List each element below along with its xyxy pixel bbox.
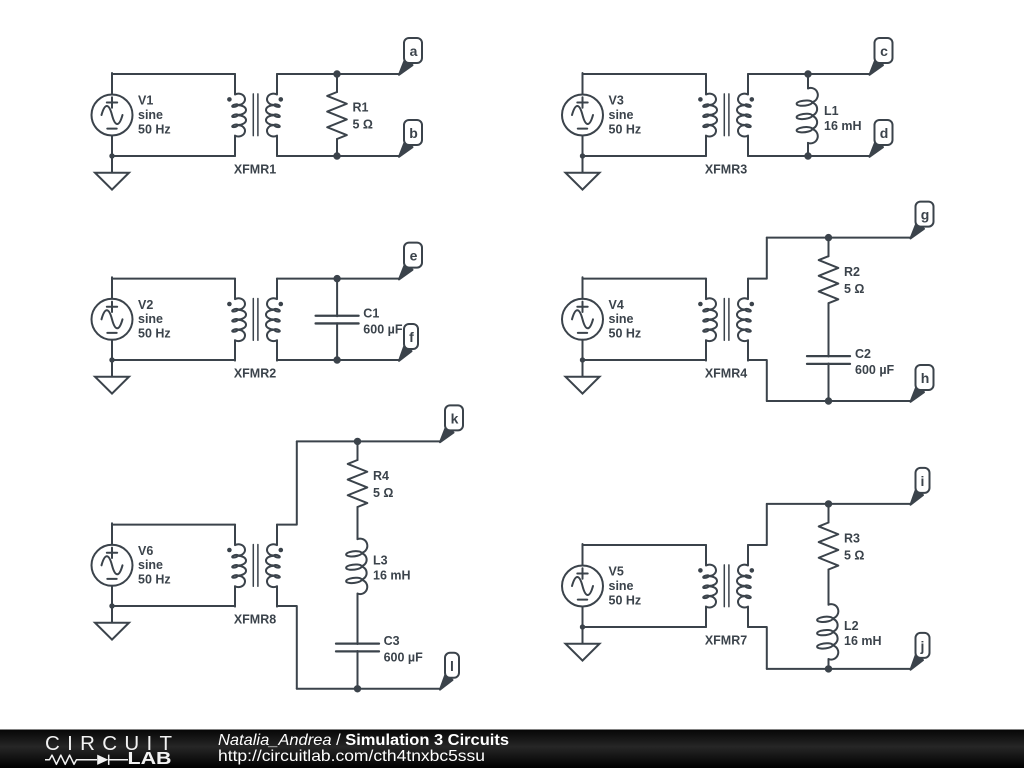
svg-text:600 µF: 600 µF bbox=[855, 363, 895, 377]
svg-text:V6: V6 bbox=[138, 544, 153, 558]
svg-text:i: i bbox=[921, 473, 925, 489]
node dot chain bottom bbox=[826, 398, 831, 403]
wire: primary loop bottom rail bbox=[583, 155, 707, 157]
svg-text:L3: L3 bbox=[373, 554, 388, 568]
wire: loop top rail to terminal i bbox=[767, 503, 911, 505]
terminal l bbox=[440, 653, 459, 690]
wire: secondary bottom rail to terminal f bbox=[277, 359, 399, 361]
svg-text:XFMR1: XFMR1 bbox=[234, 163, 276, 177]
svg-text:XFMR3: XFMR3 bbox=[705, 163, 747, 177]
wire: primary loop bottom rail bbox=[583, 359, 707, 361]
svg-text:c: c bbox=[880, 43, 888, 59]
resistor R4 bbox=[357, 441, 359, 460]
svg-text:V3: V3 bbox=[609, 94, 624, 108]
wire: secondary top jog up to loop top rail bbox=[748, 238, 767, 279]
svg-text:j: j bbox=[920, 638, 925, 654]
terminal g bbox=[911, 202, 934, 239]
terminal f bbox=[399, 324, 418, 361]
voltage source V4 bbox=[562, 277, 603, 361]
svg-text:C3: C3 bbox=[384, 634, 400, 648]
node dot chain top bbox=[355, 439, 360, 444]
svg-text:sine: sine bbox=[138, 558, 163, 572]
svg-text:16 mH: 16 mH bbox=[373, 568, 411, 582]
wire: primary loop bottom rail bbox=[112, 359, 235, 361]
wire: secondary top rail to terminal e bbox=[277, 278, 399, 280]
svg-text:a: a bbox=[410, 43, 418, 59]
resistor R1 bbox=[336, 74, 338, 92]
wire: primary loop top rail bbox=[112, 73, 235, 75]
transformer XFMR1 bbox=[227, 74, 283, 156]
wire R2 to C2 bbox=[828, 303, 830, 356]
svg-text:V5: V5 bbox=[609, 565, 624, 579]
svg-text:Natalia_Andrea / Simulation 3: Natalia_Andrea / Simulation 3 Circuits bbox=[218, 732, 509, 749]
wire: primary loop bottom rail bbox=[583, 626, 707, 628]
wire L2 to bottom rail bbox=[828, 659, 830, 669]
svg-text:R4: R4 bbox=[373, 469, 389, 483]
ground at V5 bbox=[566, 624, 600, 660]
svg-text:50 Hz: 50 Hz bbox=[138, 122, 171, 136]
wire: secondary bottom rail to terminal d bbox=[748, 155, 870, 157]
voltage source V5 bbox=[562, 544, 603, 628]
svg-text:50 Hz: 50 Hz bbox=[609, 593, 642, 607]
ground at V3 bbox=[566, 153, 600, 189]
svg-text:50 Hz: 50 Hz bbox=[138, 573, 171, 587]
terminal j bbox=[911, 633, 930, 670]
svg-text:http://circuitlab.com/cth4tnxb: http://circuitlab.com/cth4tnxbc5ssu bbox=[218, 748, 485, 765]
terminal e bbox=[399, 243, 422, 280]
svg-text:LAB: LAB bbox=[128, 748, 172, 768]
voltage source V6 bbox=[92, 523, 133, 607]
svg-text:600 µF: 600 µF bbox=[363, 323, 403, 337]
node dot chain top bbox=[826, 501, 831, 506]
svg-text:h: h bbox=[921, 370, 930, 386]
inductor L2 bbox=[817, 604, 838, 659]
wire: primary loop top rail bbox=[112, 524, 235, 526]
wire: secondary bottom jog down to loop bottom rail bbox=[277, 606, 297, 689]
wire: primary loop bottom rail bbox=[112, 605, 235, 607]
ground at V4 bbox=[566, 357, 600, 393]
svg-text:50 Hz: 50 Hz bbox=[138, 327, 171, 341]
inductor L1 bbox=[807, 74, 809, 88]
svg-text:V4: V4 bbox=[609, 298, 624, 312]
capacitor C3 bbox=[336, 644, 379, 652]
wire: primary loop top rail bbox=[583, 544, 707, 546]
node dot R1 top bbox=[334, 71, 339, 76]
inductor L3 bbox=[346, 539, 367, 594]
terminal a bbox=[399, 38, 422, 75]
svg-text:sine: sine bbox=[138, 108, 163, 122]
svg-text:R1: R1 bbox=[353, 101, 369, 115]
wire: loop top rail to terminal k bbox=[297, 440, 440, 442]
svg-text:l: l bbox=[450, 658, 454, 674]
wire R3 to L2 bbox=[828, 570, 830, 605]
svg-text:50 Hz: 50 Hz bbox=[609, 122, 642, 136]
svg-text:g: g bbox=[921, 207, 930, 223]
wire: primary loop bottom rail bbox=[112, 155, 235, 157]
svg-text:XFMR7: XFMR7 bbox=[705, 634, 747, 648]
wire: secondary bottom rail to terminal b bbox=[277, 155, 399, 157]
terminal h bbox=[911, 365, 934, 402]
capacitor C1 bbox=[336, 279, 338, 317]
svg-text:f: f bbox=[409, 329, 414, 345]
node dot C1 top bbox=[334, 276, 339, 281]
svg-text:16 mH: 16 mH bbox=[844, 634, 882, 648]
wire L3 to C3 bbox=[357, 594, 359, 644]
svg-text:L2: L2 bbox=[844, 619, 859, 633]
svg-text:sine: sine bbox=[609, 579, 634, 593]
terminal i bbox=[911, 468, 930, 505]
wire: loop bottom rail to terminal h bbox=[767, 400, 911, 402]
svg-text:5 Ω: 5 Ω bbox=[373, 486, 393, 500]
wire R4 to L3 bbox=[357, 507, 359, 539]
ground at V6 bbox=[95, 603, 129, 639]
transformer XFMR3 bbox=[698, 74, 754, 156]
transformer XFMR2 bbox=[227, 279, 283, 361]
transformer XFMR7 bbox=[698, 545, 754, 627]
node dot chain bottom bbox=[826, 666, 831, 671]
svg-text:sine: sine bbox=[609, 108, 634, 122]
wire: secondary top rail to terminal a bbox=[277, 73, 399, 75]
svg-text:sine: sine bbox=[138, 312, 163, 326]
svg-text:L1: L1 bbox=[824, 104, 839, 118]
svg-text:d: d bbox=[880, 125, 889, 141]
svg-text:k: k bbox=[451, 410, 459, 426]
node dot chain bottom bbox=[355, 686, 360, 691]
wire: loop bottom rail to terminal l bbox=[297, 688, 440, 690]
svg-text:e: e bbox=[410, 248, 418, 264]
capacitor C2 bbox=[807, 356, 850, 364]
node dot C1 bottom bbox=[334, 357, 339, 362]
svg-text:C1: C1 bbox=[363, 307, 379, 321]
svg-text:XFMR4: XFMR4 bbox=[705, 367, 747, 381]
svg-text:V1: V1 bbox=[138, 94, 153, 108]
resistor R2 bbox=[828, 238, 830, 257]
voltage source V2 bbox=[92, 277, 133, 361]
terminal b bbox=[399, 120, 422, 157]
wire: secondary top jog up to loop top rail bbox=[748, 504, 767, 545]
wire: secondary bottom jog down to loop bottom rail bbox=[748, 360, 767, 401]
wire: primary loop top rail bbox=[583, 73, 707, 75]
svg-text:5 Ω: 5 Ω bbox=[844, 548, 864, 562]
voltage source V3 bbox=[562, 73, 603, 157]
wire: loop top rail to terminal g bbox=[767, 237, 911, 239]
svg-text:R2: R2 bbox=[844, 265, 860, 279]
node dot R1 bottom bbox=[334, 153, 339, 158]
svg-text:b: b bbox=[409, 125, 418, 141]
transformer XFMR4 bbox=[698, 279, 754, 361]
wire: primary loop top rail bbox=[583, 278, 707, 280]
terminal c bbox=[870, 38, 893, 75]
svg-text:600 µF: 600 µF bbox=[384, 651, 424, 665]
node dot L1 bottom bbox=[805, 153, 810, 158]
svg-text:sine: sine bbox=[609, 312, 634, 326]
svg-text:50 Hz: 50 Hz bbox=[609, 327, 642, 341]
wire: secondary top jog up to loop top rail bbox=[277, 441, 297, 524]
wire: loop bottom rail to terminal j bbox=[767, 668, 911, 670]
node dot chain top bbox=[826, 235, 831, 240]
svg-text:C2: C2 bbox=[855, 347, 871, 361]
wire: secondary bottom jog down to loop bottom rail bbox=[748, 627, 767, 669]
CircuitLab logo resistor-diode glyph bbox=[45, 755, 97, 764]
voltage source V1 bbox=[92, 73, 133, 157]
footer background bbox=[0, 730, 1024, 768]
transformer XFMR8 bbox=[227, 525, 283, 607]
svg-text:16 mH: 16 mH bbox=[824, 119, 862, 133]
wire: primary loop top rail bbox=[112, 278, 235, 280]
svg-text:V2: V2 bbox=[138, 298, 153, 312]
svg-text:R3: R3 bbox=[844, 532, 860, 546]
terminal d bbox=[870, 120, 893, 157]
svg-text:5 Ω: 5 Ω bbox=[353, 117, 373, 131]
terminal k bbox=[440, 405, 463, 442]
svg-text:5 Ω: 5 Ω bbox=[844, 282, 864, 296]
ground at V1 bbox=[95, 153, 129, 189]
node dot L1 top bbox=[805, 71, 810, 76]
svg-text:XFMR2: XFMR2 bbox=[234, 367, 276, 381]
svg-text:XFMR8: XFMR8 bbox=[234, 613, 276, 627]
wire: secondary top rail to terminal c bbox=[748, 73, 870, 75]
ground at V2 bbox=[95, 357, 129, 393]
resistor R3 bbox=[828, 504, 830, 523]
